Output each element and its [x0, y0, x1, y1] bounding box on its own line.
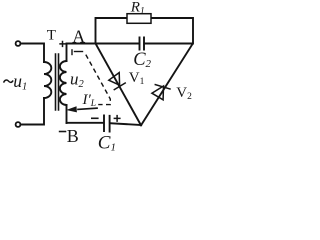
svg-text:R1: R1	[130, 0, 145, 17]
label + at A	[59, 41, 65, 47]
wire B horizontal	[67, 122, 104, 124]
svg-text:V2: V2	[176, 85, 192, 102]
capacitor C2 plates	[140, 38, 145, 50]
secondary winding	[60, 61, 67, 105]
terminal top	[16, 41, 21, 46]
wire primary top	[21, 44, 44, 63]
wire C2 right segment	[144, 43, 192, 45]
label ~u1	[4, 80, 13, 83]
arrowhead	[66, 106, 77, 112]
resistor R1 body	[127, 14, 151, 24]
svg-text:T: T	[47, 27, 56, 43]
terminal bottom	[16, 122, 21, 127]
wire primary bottom	[21, 98, 44, 125]
label + at C1	[114, 115, 121, 122]
diode V1 symbol	[109, 73, 125, 90]
wire node A vertical	[66, 44, 68, 62]
svg-text:C1: C1	[98, 132, 116, 151]
diode V2 symbol	[152, 85, 170, 100]
svg-text:V1: V1	[129, 70, 145, 87]
label - at C1	[91, 117, 99, 119]
svg-text:u2: u2	[70, 69, 85, 90]
capacitor C1 plates	[104, 116, 110, 132]
label - at B	[59, 131, 67, 133]
wire node B vertical	[66, 105, 68, 123]
transformer T primary winding	[44, 62, 51, 98]
diode V2 branch wire	[141, 44, 193, 125]
svg-text:C2: C2	[133, 50, 151, 70]
current arrow I'L	[78, 108, 97, 109]
top loop: left vertical, top wire, right vertical	[96, 18, 194, 44]
svg-text:B: B	[67, 126, 79, 146]
dashed current path	[72, 49, 110, 104]
wire A horizontal	[67, 43, 140, 45]
svg-text:A: A	[72, 27, 85, 47]
svg-text:u1: u1	[13, 71, 27, 93]
diode V1 branch wire	[96, 44, 141, 125]
transformer core	[56, 54, 59, 110]
svg-text:I′L: I′L	[82, 92, 97, 109]
wire C1 to junction	[110, 123, 141, 125]
